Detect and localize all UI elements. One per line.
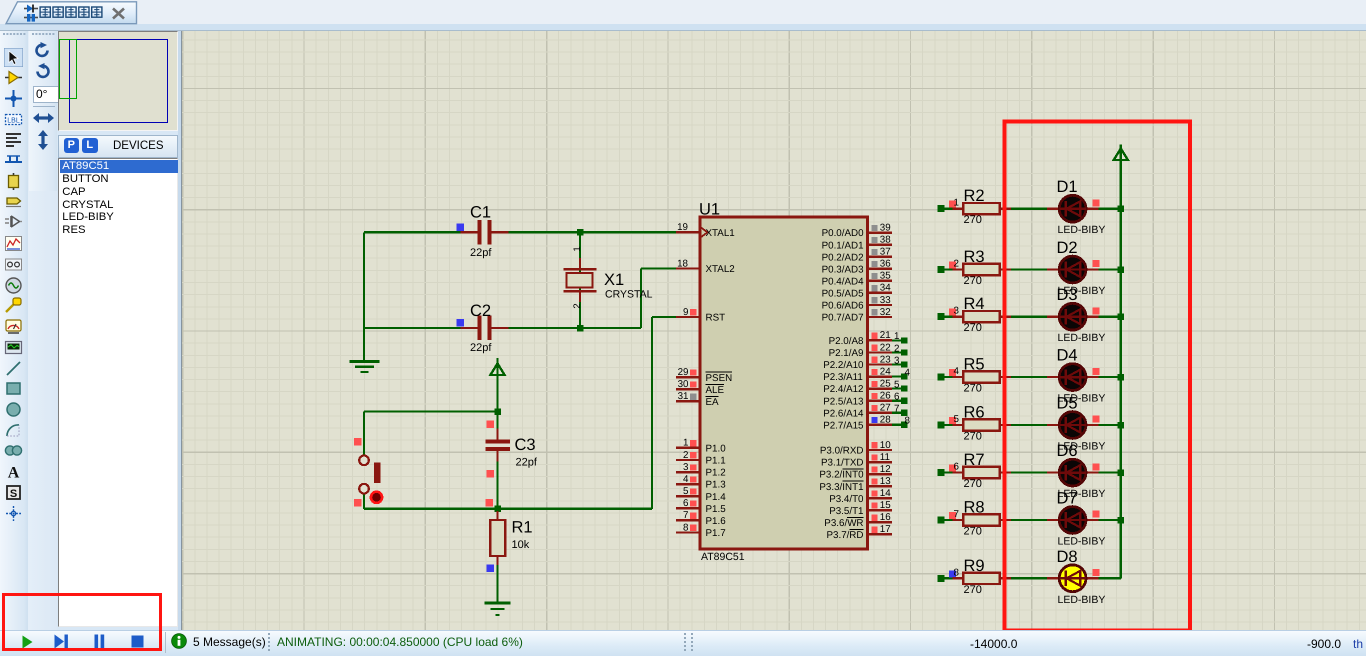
junction D5 at rail xyxy=(1118,422,1125,429)
state square net 2 xyxy=(949,262,956,269)
top hairline xyxy=(0,30,1366,31)
crystal X1 xyxy=(564,258,597,302)
state square right of D6 xyxy=(1092,463,1099,470)
toolbar icon: tape recorder tool xyxy=(4,255,23,274)
resistor R1 xyxy=(490,511,505,565)
svg-text:D3: D3 xyxy=(1057,286,1078,304)
pin 10 (P3.0) right side xyxy=(868,440,892,451)
svg-text:3: 3 xyxy=(954,306,960,317)
svg-text:10: 10 xyxy=(880,440,891,451)
toolbar icon: voltage probe tool xyxy=(4,296,23,315)
simulation play button xyxy=(22,635,33,649)
status separator dotted xyxy=(268,633,270,652)
state square right of D2 xyxy=(1092,260,1099,267)
wire button-top vertical xyxy=(363,412,365,456)
svg-text:5: 5 xyxy=(954,414,960,425)
svg-text:13: 13 xyxy=(880,476,891,487)
wire D7 to rail xyxy=(1099,519,1121,521)
pin 24 (P2.3/A11) right side xyxy=(868,366,892,377)
svg-text:25: 25 xyxy=(880,378,891,389)
svg-text:5: 5 xyxy=(894,379,900,390)
svg-text:C3: C3 xyxy=(515,436,536,454)
svg-text:24: 24 xyxy=(880,366,891,377)
pin 18 (XTAL2) left side xyxy=(676,258,700,269)
svg-text:270: 270 xyxy=(964,526,982,538)
wire XTAL2 riser xyxy=(640,269,642,329)
state square below button xyxy=(354,499,362,507)
wire button-bottom vertical xyxy=(363,494,365,509)
device list item CAP xyxy=(62,186,85,198)
svg-text:P0.7/AD7: P0.7/AD7 xyxy=(822,313,864,324)
svg-text:C1: C1 xyxy=(470,204,491,222)
svg-text:R9: R9 xyxy=(964,557,985,575)
DEVICES panel header xyxy=(58,135,178,158)
svg-text:D8: D8 xyxy=(1057,548,1078,566)
svg-text:R8: R8 xyxy=(964,499,985,517)
toolbar icon: 2D text tool xyxy=(4,462,23,481)
svg-text:P2.3/A11: P2.3/A11 xyxy=(823,372,863,383)
junction at C2/X1 node xyxy=(577,325,584,332)
pin 17 (P3.7) right side xyxy=(868,524,892,535)
wire R4 to D3 xyxy=(1011,316,1048,318)
svg-text:P1.6: P1.6 xyxy=(706,516,727,527)
resistor R6 xyxy=(953,419,1012,430)
svg-text:270: 270 xyxy=(964,322,982,334)
left toolbar background xyxy=(0,31,57,631)
LED D2 xyxy=(1047,256,1099,283)
svg-text:15: 15 xyxy=(880,500,891,511)
P button xyxy=(64,138,80,154)
tab bar background xyxy=(0,0,1366,24)
toolbar icon: 2D symbol tool xyxy=(4,483,23,502)
svg-text:P2.2/A10: P2.2/A10 xyxy=(823,360,864,371)
wire stub net 1 at pin 21 xyxy=(892,339,907,341)
svg-text:D2: D2 xyxy=(1057,239,1078,257)
svg-text:U1: U1 xyxy=(699,201,720,219)
pin 34 (P0.5/AD5) right side xyxy=(868,283,892,294)
pin 6 (P1.5) left side xyxy=(676,498,700,509)
pin 37 (P0.2/AD2) right side xyxy=(868,247,892,258)
LED D4 xyxy=(1047,364,1099,391)
svg-text:P3.3/: P3.3/ xyxy=(819,482,842,493)
svg-text:P3.5/T1: P3.5/T1 xyxy=(829,506,863,517)
wire LED common rail vertical xyxy=(1120,160,1122,578)
junction at reset node xyxy=(494,506,501,513)
wire net 4 to resistor R5 xyxy=(938,376,965,378)
svg-text:14: 14 xyxy=(880,488,891,499)
svg-text:P2.5/A13: P2.5/A13 xyxy=(823,396,864,407)
wire stub net 8 at pin 28 xyxy=(892,424,907,426)
wire D3 to rail xyxy=(1099,316,1121,318)
L button xyxy=(82,138,98,154)
svg-text:P2.1/A9: P2.1/A9 xyxy=(829,348,864,359)
svg-text:LED-BIBY: LED-BIBY xyxy=(1058,594,1106,606)
svg-text:270: 270 xyxy=(964,431,982,443)
svg-text:6: 6 xyxy=(683,498,689,509)
svg-text:R5: R5 xyxy=(964,356,985,374)
state square right of D3 xyxy=(1092,307,1099,314)
toolbar grip dots xyxy=(0,31,28,39)
svg-text:8: 8 xyxy=(683,522,689,533)
status separator xyxy=(165,632,166,653)
wire R8 to D7 xyxy=(1011,519,1048,521)
pin 28 (P2.7/A15) right side xyxy=(868,415,892,426)
svg-text:D6: D6 xyxy=(1057,442,1078,460)
svg-text:P0.5/AD5: P0.5/AD5 xyxy=(822,289,864,300)
junction D2 at rail xyxy=(1118,266,1125,273)
svg-text:P2.6/A14: P2.6/A14 xyxy=(823,408,864,419)
toolbar icon: generator tool xyxy=(4,276,23,295)
status separator dotted 2 xyxy=(684,633,686,652)
svg-text:A: A xyxy=(8,465,20,482)
svg-text:12: 12 xyxy=(880,464,891,475)
wire R1 to ground xyxy=(496,556,498,603)
svg-text:D7: D7 xyxy=(1057,490,1078,508)
svg-text:P0.1/AD1: P0.1/AD1 xyxy=(822,240,864,251)
svg-text:RD: RD xyxy=(849,530,863,541)
svg-text:P2.0/A8: P2.0/A8 xyxy=(829,336,864,347)
svg-text:21: 21 xyxy=(880,330,891,341)
message count text xyxy=(193,635,266,649)
wire stub net 6 at pin 26 xyxy=(892,400,907,402)
svg-text:8: 8 xyxy=(905,416,911,427)
toolbar icon: 2D closed path tool xyxy=(4,441,23,460)
svg-text:4: 4 xyxy=(905,367,911,378)
svg-text:INT1: INT1 xyxy=(842,482,863,493)
state square net 7 xyxy=(949,512,956,519)
state square below R1 xyxy=(486,564,494,572)
power symbol VCC (LED rail) xyxy=(1114,145,1128,163)
wire net 8 to resistor R9 xyxy=(938,577,965,579)
LED D5 xyxy=(1047,412,1099,439)
wire reset node to R1 xyxy=(496,509,498,521)
svg-text:23: 23 xyxy=(880,354,891,365)
svg-text:P0.4/AD4: P0.4/AD4 xyxy=(822,276,864,287)
red annotation box around simulation controls xyxy=(2,593,162,651)
state square right of D8 xyxy=(1092,569,1099,576)
svg-text:3: 3 xyxy=(894,355,900,366)
wire stub net 7 at pin 27 xyxy=(892,412,907,414)
svg-text:X1: X1 xyxy=(604,271,624,289)
svg-text:P3.1/TXD: P3.1/TXD xyxy=(821,458,863,469)
svg-text:WR: WR xyxy=(847,518,863,529)
wire net 2 to resistor R3 xyxy=(938,268,965,270)
simulation stop button xyxy=(131,635,144,648)
svg-text:26: 26 xyxy=(880,391,891,402)
power symbol VCC (reset branch) xyxy=(490,358,504,377)
svg-text:39: 39 xyxy=(880,222,891,233)
state square reset node xyxy=(485,499,493,507)
wire reset node horizontal xyxy=(364,508,652,510)
canvas left border xyxy=(178,31,182,631)
toolbar icon: 2D circle tool xyxy=(4,400,23,419)
wire R7 to D6 xyxy=(1011,472,1048,474)
wire stub net 5 at pin 25 xyxy=(892,388,907,390)
wire D4 to rail xyxy=(1099,376,1121,378)
push button xyxy=(359,456,380,494)
pin 11 (P3.1) right side xyxy=(868,452,892,463)
svg-text:D5: D5 xyxy=(1057,395,1078,413)
coordinate y text xyxy=(1307,637,1341,651)
IC U1 AT89C51 body xyxy=(700,217,868,549)
toolbar icon: 2D marker tool xyxy=(4,504,23,523)
svg-text:32: 32 xyxy=(880,307,891,318)
junction D6 at rail xyxy=(1118,469,1125,476)
svg-text:11: 11 xyxy=(880,452,890,463)
svg-text:36: 36 xyxy=(880,259,891,270)
svg-text:35: 35 xyxy=(880,271,891,282)
pin 3 (P1.2) left side xyxy=(676,462,700,473)
svg-text:LBL: LBL xyxy=(7,117,20,124)
svg-text:P2.7/A15: P2.7/A15 xyxy=(823,420,864,431)
wire D5 to rail xyxy=(1099,424,1121,426)
tab close button xyxy=(111,7,126,20)
pin 14 (P3.4) right side xyxy=(868,488,892,499)
pin 36 (P0.3/AD3) right side xyxy=(868,259,892,270)
svg-text:P2.4/A12: P2.4/A12 xyxy=(823,384,863,395)
wire R6 to D5 xyxy=(1011,424,1048,426)
svg-text:2: 2 xyxy=(683,450,688,461)
wire net 6 to resistor R7 xyxy=(938,472,965,474)
overview (world view) panel xyxy=(58,31,178,131)
status bar xyxy=(0,630,1366,656)
wire R5 to D4 xyxy=(1011,376,1048,378)
svg-text:P1.2: P1.2 xyxy=(706,468,726,479)
capacitor C3 xyxy=(485,429,510,462)
pin 27 (P2.6/A14) right side xyxy=(868,403,892,414)
svg-text:P1.1: P1.1 xyxy=(706,456,726,467)
state square net 1 xyxy=(949,201,956,208)
svg-text:P0.6/AD6: P0.6/AD6 xyxy=(822,301,864,312)
svg-text:CRYSTAL: CRYSTAL xyxy=(605,289,653,301)
wire C3 to reset node xyxy=(496,450,498,509)
resistor R9 xyxy=(953,573,1012,584)
wire net 7 to resistor R8 xyxy=(938,519,965,521)
pin 4 (P1.3) left side xyxy=(676,474,700,485)
svg-text:EA: EA xyxy=(706,397,720,408)
device list item RES xyxy=(62,224,85,236)
wire D6 to rail xyxy=(1099,472,1121,474)
wire net 3 to resistor R4 xyxy=(938,316,965,318)
LED D1 xyxy=(1047,195,1099,222)
state square C1 xyxy=(456,223,464,231)
svg-text:22pf: 22pf xyxy=(470,247,492,259)
pin 39 (P0.0/AD0) right side xyxy=(868,222,892,233)
toolbar icon: 2D arc tool xyxy=(4,421,23,440)
svg-text:33: 33 xyxy=(880,295,891,306)
pin 9 (RST) left side xyxy=(676,307,700,318)
pin 26 (P2.5/A13) right side xyxy=(868,391,892,402)
svg-text:P3.0/RXD: P3.0/RXD xyxy=(820,446,864,457)
svg-text:4: 4 xyxy=(683,474,689,485)
toolbar icon: selection mode tool (selected) xyxy=(4,48,23,67)
pin 15 (P3.5) right side xyxy=(868,500,892,511)
separator xyxy=(33,106,55,107)
svg-text:P0.2/AD2: P0.2/AD2 xyxy=(822,252,864,263)
svg-text:8: 8 xyxy=(954,567,960,578)
animating status text xyxy=(277,635,523,649)
svg-text:22pf: 22pf xyxy=(516,457,538,469)
svg-text:XTAL2: XTAL2 xyxy=(706,264,735,275)
svg-text:18: 18 xyxy=(677,258,688,269)
svg-text:R4: R4 xyxy=(964,295,985,313)
svg-text:R6: R6 xyxy=(964,404,985,422)
svg-text:R3: R3 xyxy=(964,248,985,266)
svg-text:9: 9 xyxy=(683,307,688,318)
DEVICES title xyxy=(113,140,164,152)
state square above C3 xyxy=(486,420,494,428)
device list item AT89C51 (selected) xyxy=(60,160,180,173)
svg-text:6: 6 xyxy=(954,462,960,473)
svg-text:29: 29 xyxy=(678,367,689,378)
pin 23 (P2.2/A10) right side xyxy=(868,354,892,365)
state square net 8 xyxy=(949,570,956,577)
state square net 5 xyxy=(949,417,956,424)
toolbar icon: junction dot tool xyxy=(4,89,23,108)
ground symbol GND2 xyxy=(485,603,511,615)
svg-text:22: 22 xyxy=(880,342,891,353)
svg-text:LED-BIBY: LED-BIBY xyxy=(1058,332,1106,344)
toolbar icon: graph mode tool xyxy=(4,234,23,253)
svg-text:P1.4: P1.4 xyxy=(706,492,727,503)
toolbar icon: bus tool xyxy=(4,151,23,170)
toolbar icon: 2D line tool xyxy=(4,359,23,378)
svg-text:2: 2 xyxy=(572,303,583,308)
svg-text:ALE: ALE xyxy=(706,385,725,396)
wire stub net 4 at pin 24 xyxy=(892,376,907,378)
wire left vertical C1/C2 to ground xyxy=(363,232,365,360)
pin 32 (P0.7/AD7) right side xyxy=(868,307,892,318)
svg-text:C2: C2 xyxy=(470,302,491,320)
svg-text:R7: R7 xyxy=(964,451,985,469)
svg-text:16: 16 xyxy=(880,512,891,523)
svg-text:D1: D1 xyxy=(1057,178,1078,196)
svg-text:P0.3/AD3: P0.3/AD3 xyxy=(822,264,864,275)
state square below C3 xyxy=(486,470,494,478)
svg-text:P3.2/: P3.2/ xyxy=(819,470,842,481)
simulation step button xyxy=(54,634,69,649)
toolbar icon: component mode tool xyxy=(4,68,23,87)
svg-text:1: 1 xyxy=(683,438,688,449)
svg-text:R2: R2 xyxy=(964,187,985,205)
state square right of D1 xyxy=(1092,199,1099,206)
svg-text:27: 27 xyxy=(880,403,891,414)
svg-text:R1: R1 xyxy=(512,519,533,537)
svg-text:P0.0/AD0: P0.0/AD0 xyxy=(822,228,864,239)
device list box xyxy=(58,158,178,627)
junction at C3/button node xyxy=(494,408,501,415)
svg-text:RST: RST xyxy=(706,313,726,324)
svg-text:P1.0: P1.0 xyxy=(706,444,727,455)
svg-text:22pf: 22pf xyxy=(470,342,492,354)
state square C2 xyxy=(456,319,464,327)
svg-text:7: 7 xyxy=(683,510,688,521)
capacitor C2 xyxy=(461,316,509,341)
wire R2 to D1 xyxy=(1011,208,1048,210)
svg-text:270: 270 xyxy=(964,275,982,287)
wire C2/XTAL2 net horizontal xyxy=(364,327,641,329)
junction at C1/X1 node xyxy=(577,229,584,236)
svg-text:1: 1 xyxy=(954,198,959,209)
svg-text:270: 270 xyxy=(964,584,982,596)
svg-text:31: 31 xyxy=(678,391,689,402)
simulation pause button xyxy=(94,634,105,649)
state square net 3 xyxy=(949,309,956,316)
svg-text:PSEN: PSEN xyxy=(706,373,733,384)
canvas background xyxy=(181,30,1366,630)
wire RST riser xyxy=(651,317,653,509)
button actuator dot xyxy=(371,492,382,503)
junction D3 at rail xyxy=(1118,313,1125,320)
pin 5 (P1.4) left side xyxy=(676,486,700,497)
svg-text:6: 6 xyxy=(894,392,900,403)
tab icon (schematic symbol) xyxy=(23,4,39,22)
wire crystal branch vertical xyxy=(579,232,581,328)
toolbar icon: text script tool xyxy=(4,130,23,149)
toolbar icon: virtual instrument tool xyxy=(4,338,23,357)
pin 16 (P3.6) right side xyxy=(868,512,892,523)
state square right of D7 xyxy=(1092,511,1099,518)
svg-text:1: 1 xyxy=(572,246,583,251)
junction D1 at rail xyxy=(1118,205,1125,212)
pin 19 (XTAL1) left side xyxy=(676,222,708,238)
svg-text:37: 37 xyxy=(880,247,891,258)
pin 29 (PSEN) left side xyxy=(676,367,700,378)
resistor R3 xyxy=(953,264,1012,275)
svg-text:LED-BIBY: LED-BIBY xyxy=(1058,224,1106,236)
wire D2 to rail xyxy=(1099,268,1121,270)
svg-text:4: 4 xyxy=(954,366,960,377)
capacitor C1 xyxy=(461,220,509,245)
svg-text:LED-BIBY: LED-BIBY xyxy=(1058,536,1106,548)
flip horizontal button xyxy=(33,111,54,125)
pin 38 (P0.1/AD1) right side xyxy=(868,235,892,246)
svg-text:AT89C51: AT89C51 xyxy=(701,551,745,563)
resistor R4 xyxy=(953,311,1012,322)
wire button-top horizontal xyxy=(364,410,498,412)
wire D8 to rail xyxy=(1099,577,1121,579)
svg-text:38: 38 xyxy=(880,235,891,246)
LED D3 xyxy=(1047,303,1099,330)
svg-text:P3.7/: P3.7/ xyxy=(827,530,850,541)
resistor R8 xyxy=(953,514,1012,525)
rotation angle box 0° xyxy=(33,86,60,103)
svg-text:34: 34 xyxy=(880,283,891,294)
toolbar icon: wire label tool xyxy=(4,110,23,129)
pin 12 (P3.2) right side xyxy=(868,464,892,475)
svg-text:270: 270 xyxy=(964,383,982,395)
wire R3 to D2 xyxy=(1011,268,1048,270)
pin 35 (P0.4/AD4) right side xyxy=(868,271,892,282)
ground symbol GND1 xyxy=(350,362,380,373)
red annotation box around LED column xyxy=(1005,122,1191,631)
device list item BUTTON xyxy=(62,173,108,185)
svg-text:XTAL1: XTAL1 xyxy=(706,228,735,239)
svg-text:2: 2 xyxy=(954,259,959,270)
svg-text:270: 270 xyxy=(964,214,982,226)
tab title 原理图绘制 (CJK glyph blocks) xyxy=(0,0,140,24)
pin 25 (P2.4/A12) right side xyxy=(868,378,892,389)
overview sheet outline (blue) xyxy=(69,39,169,123)
toolbar icon: current probe tool xyxy=(4,317,23,336)
wire stub net 2 at pin 22 xyxy=(892,351,907,353)
schematic editing canvas xyxy=(181,30,1366,630)
wire VCC to C3 xyxy=(496,377,498,441)
svg-text:17: 17 xyxy=(880,524,891,535)
toolbar icon: terminal tool xyxy=(4,193,23,212)
active tab xyxy=(0,0,200,31)
units text xyxy=(1353,637,1363,651)
